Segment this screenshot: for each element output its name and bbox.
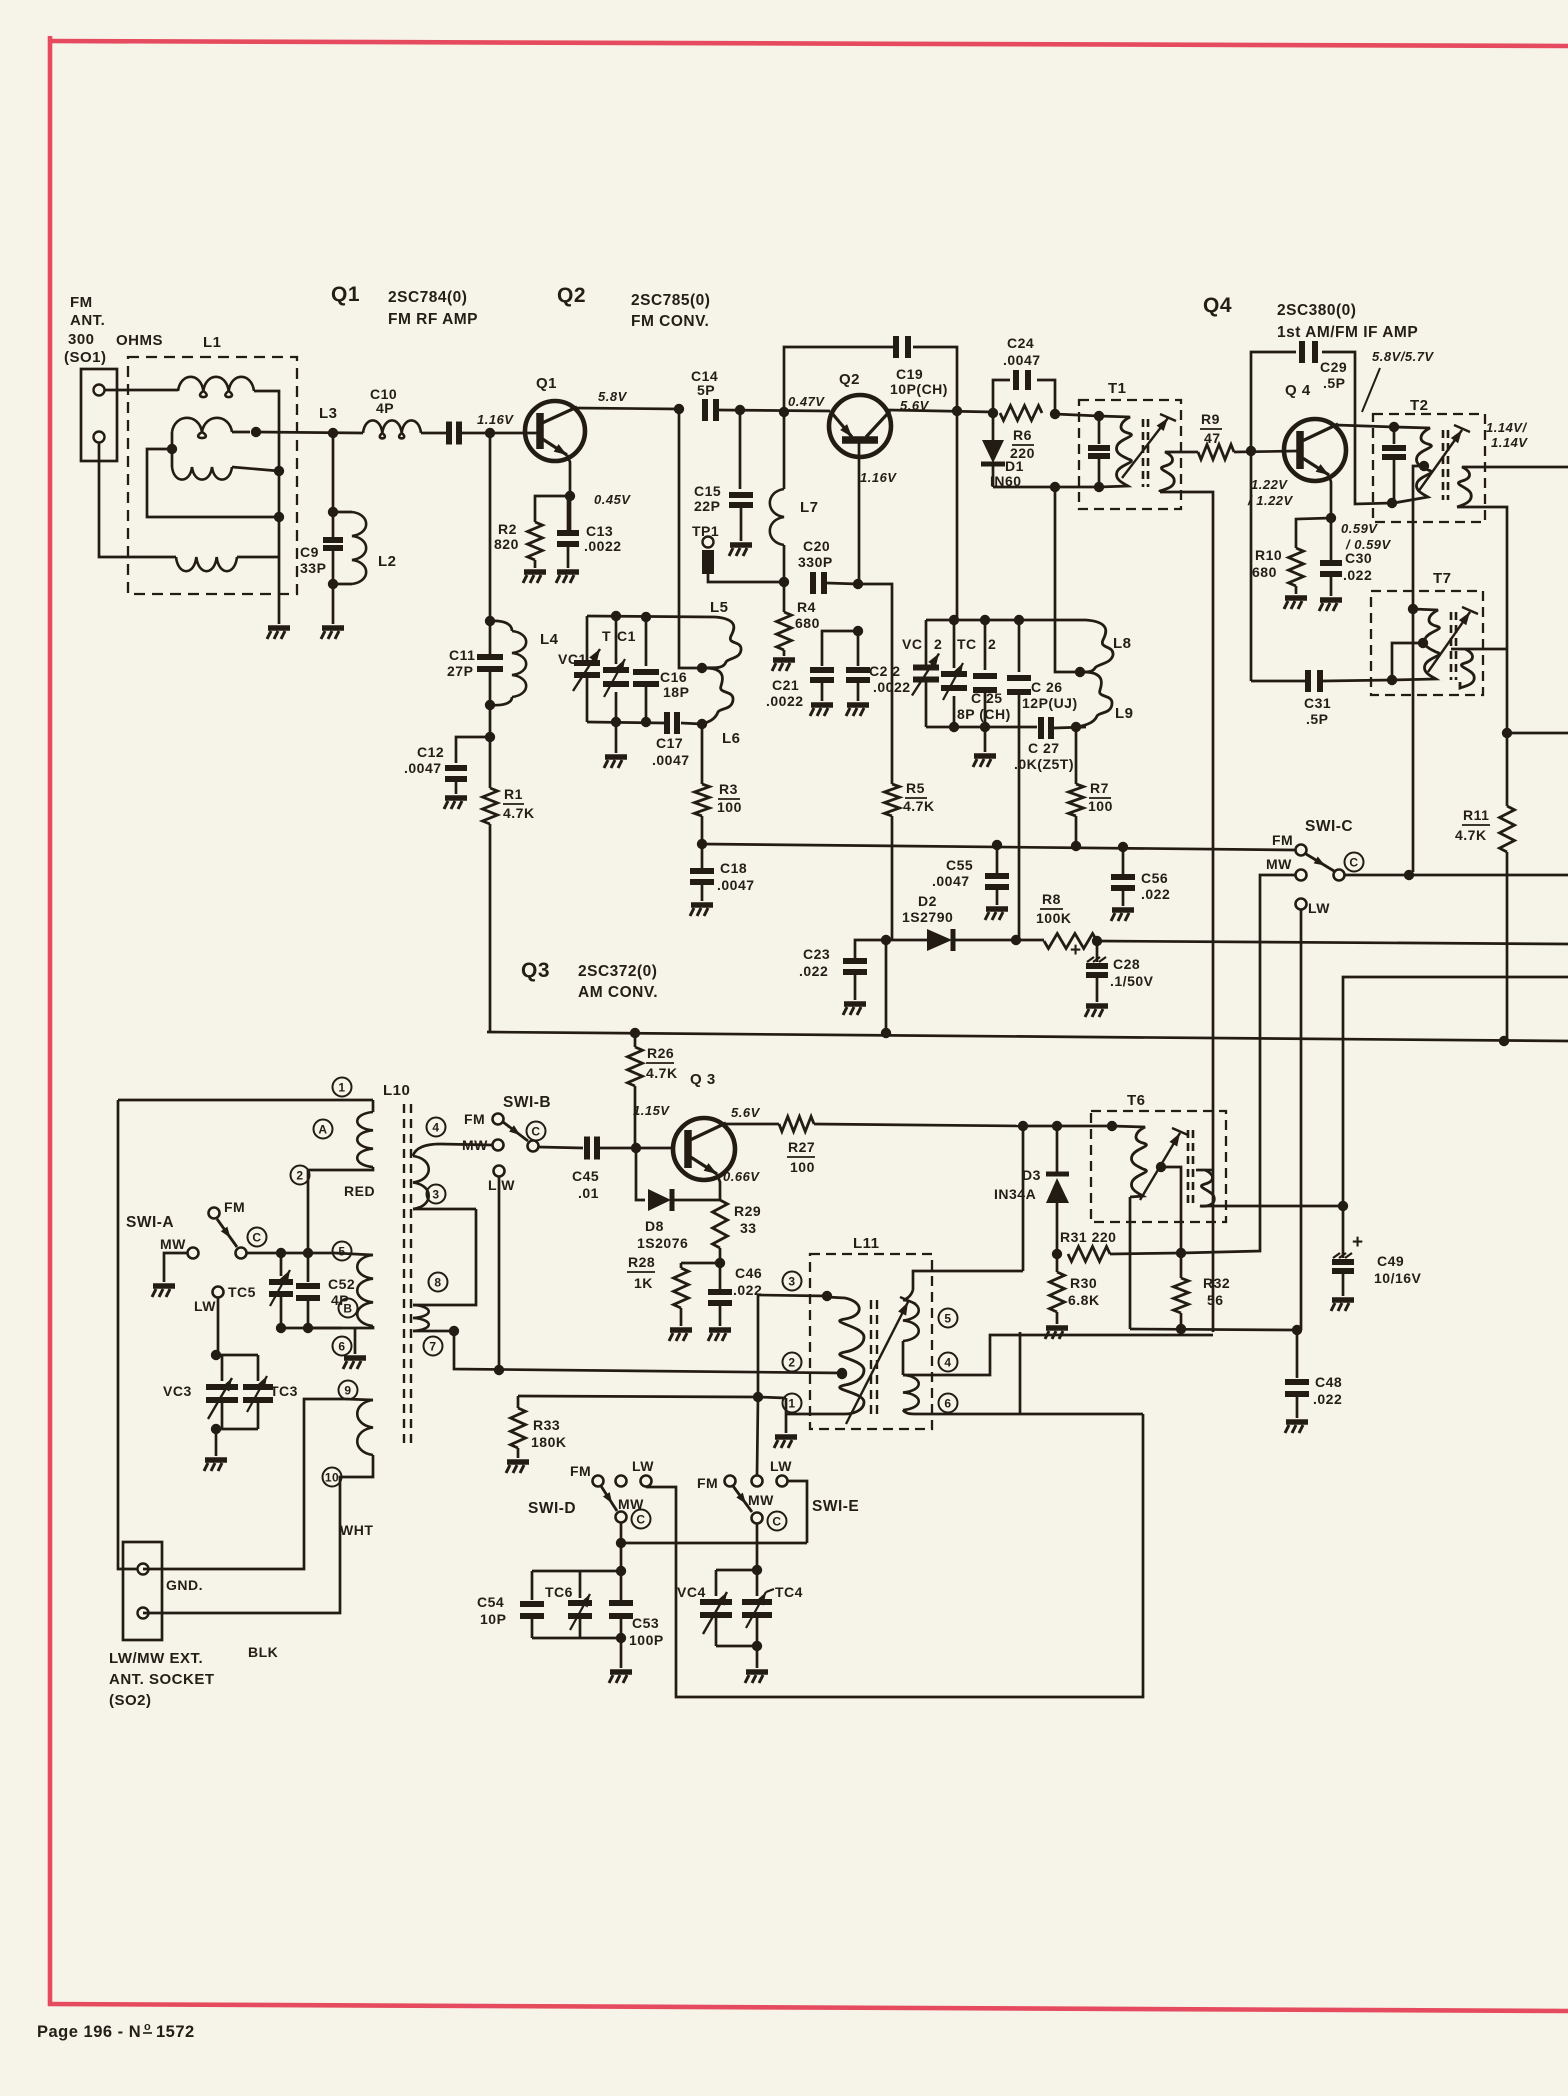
svg-text:T: T (602, 628, 611, 644)
svg-text:Page 196 - N: Page 196 - N (37, 2023, 141, 2041)
svg-text:LW: LW (632, 1458, 654, 1474)
label R9 (1200, 411, 1222, 446)
svg-text:2: 2 (296, 1168, 303, 1182)
svg-text:2: 2 (934, 636, 942, 652)
terminal 6 (333, 1337, 352, 1356)
svg-text:L11: L11 (853, 1235, 880, 1252)
wire R4 top (783, 582, 786, 612)
svg-text:L2: L2 (378, 553, 397, 570)
T2 primary (1394, 427, 1431, 503)
label TC1 (602, 628, 636, 644)
label C52 (328, 1276, 355, 1308)
T2 secondary (1457, 467, 1485, 507)
wire Q3 collector (724, 1123, 779, 1126)
label L8 (1113, 635, 1132, 652)
transistor Q4 (1284, 419, 1346, 481)
svg-text:.0022: .0022 (873, 679, 911, 695)
svg-text:RED: RED (344, 1183, 375, 1199)
terminal L11 3 (783, 1272, 802, 1291)
switch SW1-A arm (217, 1219, 237, 1247)
transistor Q2 (829, 395, 891, 457)
wire D3 T6 feed (1023, 1121, 1112, 1131)
wire emitter node (1296, 518, 1331, 548)
label Q4 ref (1285, 382, 1311, 399)
antenna socket SO1 (81, 369, 117, 461)
wire AGC rail (702, 842, 1295, 852)
label T7 (1433, 570, 1452, 587)
svg-text:4: 4 (944, 1355, 951, 1369)
svg-text:C21: C21 (772, 677, 799, 693)
label C11 (447, 647, 475, 679)
wire D2 node down (881, 940, 891, 1038)
svg-text:R10: R10 (1255, 547, 1282, 563)
label T2 (1410, 397, 1429, 414)
svg-text:FM RF AMP: FM RF AMP (388, 311, 478, 328)
wire tank bottom (587, 717, 664, 727)
switch SW1-E mid (752, 1476, 763, 1487)
wire C31 (1251, 680, 1392, 681)
svg-text:1: 1 (788, 1396, 795, 1410)
svg-text:.0022: .0022 (584, 538, 622, 554)
T2 primary tap (1413, 461, 1429, 872)
wire tank2 top (926, 615, 1086, 625)
ground C53 (609, 1638, 632, 1683)
wire C21 tap (822, 626, 863, 666)
svg-text:8P (CH): 8P (CH) (957, 706, 1011, 722)
label C49 plus (1352, 1232, 1364, 1253)
label TC4 (775, 1584, 803, 1600)
svg-text:R1: R1 (504, 786, 523, 802)
wire T1 top (1055, 411, 1104, 421)
svg-text:L5: L5 (710, 599, 729, 616)
svg-text:0.45V: 0.45V (594, 492, 631, 507)
label Q1 title (331, 283, 478, 328)
svg-text:3: 3 (432, 1187, 439, 1201)
svg-text:FM CONV.: FM CONV. (631, 313, 709, 330)
svg-text:L9: L9 (1115, 705, 1134, 722)
ground C28 (1085, 975, 1108, 1017)
wire to C12 (456, 737, 490, 763)
svg-text:C55: C55 (946, 857, 973, 873)
label R6 (1010, 427, 1035, 461)
ground C9 (321, 628, 344, 639)
label C14 (691, 368, 718, 398)
svg-text:2: 2 (788, 1355, 795, 1369)
svg-text:.022: .022 (1313, 1391, 1342, 1407)
wire C49 up (1343, 977, 1346, 1206)
svg-text:L W: L W (488, 1177, 515, 1193)
wire SWA loop top (118, 1099, 373, 1102)
inductor L7 (770, 412, 784, 582)
terminal L11 1 (783, 1394, 802, 1413)
ground L1 bus (267, 628, 290, 639)
wire L3 to C10 (421, 432, 446, 435)
svg-text:FM: FM (697, 1475, 718, 1491)
coil L5 (702, 617, 741, 668)
wire C14 to C15 (739, 410, 742, 489)
svg-text:TC3: TC3 (270, 1383, 298, 1399)
switch SW1-D arm (601, 1486, 617, 1511)
capacitor C18 (690, 844, 714, 882)
wire term2 down (307, 1170, 310, 1253)
trimmer TC6 (568, 1571, 592, 1638)
svg-text:C 26: C 26 (1031, 679, 1063, 695)
terminal L11 6 (939, 1394, 958, 1413)
svg-text:C20: C20 (803, 538, 830, 554)
wire T6 sec top (1205, 1169, 1213, 1172)
svg-text:C: C (252, 1230, 261, 1244)
transistor Q3 (673, 1118, 735, 1180)
svg-text:R4: R4 (797, 599, 816, 615)
label 1.14V (1486, 420, 1528, 450)
svg-text:680: 680 (1252, 564, 1277, 580)
label VC1 (558, 651, 587, 667)
svg-text:3: 3 (788, 1274, 795, 1288)
label D1 (990, 458, 1024, 489)
page footer text (37, 2021, 195, 2041)
label C30 (1343, 550, 1372, 583)
wire Q2 collector (888, 406, 993, 416)
svg-text:C2 2: C2 2 (869, 663, 901, 679)
label GND (166, 1577, 203, 1593)
transformer T7 box (1371, 591, 1483, 695)
coil L8 (1080, 620, 1113, 672)
wire LW tank (211, 1298, 221, 1360)
ground C48 (1285, 1394, 1308, 1433)
svg-text:LW/MW EXT.: LW/MW EXT. (109, 1650, 203, 1667)
label SW1-D (528, 1500, 576, 1517)
ground C46 (708, 1303, 731, 1341)
wire Q4 base down (1250, 451, 1253, 681)
wire socket to L1 coil (105, 389, 178, 392)
label C15 (694, 483, 721, 514)
svg-text:L6: L6 (722, 730, 741, 747)
wire L1 loop (147, 449, 284, 522)
label C12 (404, 744, 444, 776)
inductor L4 (490, 621, 526, 705)
wire B+ rail (487, 1028, 1568, 1046)
svg-text:.022: .022 (1343, 567, 1372, 583)
svg-text:L1: L1 (203, 334, 222, 351)
resistor R30 (1050, 1254, 1065, 1312)
capacitor C31 (1308, 670, 1320, 692)
label C16 (660, 669, 689, 700)
svg-text:10/16V: 10/16V (1374, 1270, 1422, 1286)
wire D2 to R8 (1016, 939, 1044, 942)
transformer T2 box (1373, 414, 1485, 522)
wire term4 to SWB (440, 1144, 492, 1145)
label D3 (994, 1167, 1041, 1202)
resistor R1 (483, 737, 498, 824)
label C9 (300, 544, 326, 576)
label C19 (890, 366, 948, 397)
resistor R8 (1044, 934, 1097, 949)
switch SW1-E LW (770, 1458, 792, 1487)
svg-text:Q1: Q1 (331, 283, 360, 306)
wire LW long (498, 1177, 501, 1370)
wire socket2 to L1d (99, 443, 176, 557)
capacitor C16 (633, 617, 659, 722)
label R2 (494, 521, 519, 552)
node L5 L6 tap (697, 663, 707, 673)
label 5.8V 5.7V (1362, 349, 1434, 412)
capacitor C56 (1111, 847, 1135, 888)
svg-text:IN34A: IN34A (994, 1186, 1036, 1202)
label VC2 (902, 636, 942, 652)
coil L2 (333, 512, 366, 584)
svg-text:4P: 4P (376, 400, 394, 416)
terminal 1 (333, 1078, 352, 1097)
svg-text:T1: T1 (1108, 380, 1127, 397)
svg-text:C: C (1349, 855, 1358, 869)
svg-text:100P: 100P (629, 1632, 664, 1648)
svg-text:C19: C19 (896, 366, 923, 382)
svg-text:1.16V: 1.16V (860, 470, 897, 485)
svg-text:T6: T6 (1127, 1092, 1146, 1109)
ground C49 (1331, 1271, 1354, 1311)
ground term6 (343, 1328, 366, 1369)
ground R30 (1045, 1312, 1068, 1339)
wire rail to C9 (328, 428, 338, 538)
svg-text:Q4: Q4 (1203, 294, 1232, 317)
svg-text:0.47V: 0.47V (788, 394, 825, 409)
svg-text:10: 10 (325, 1470, 339, 1484)
resistor R32 (1174, 1253, 1189, 1334)
label SW1-B (503, 1094, 551, 1111)
svg-text:C16: C16 (660, 669, 687, 685)
capacitor C53 (609, 1571, 633, 1638)
svg-text:R8: R8 (1042, 891, 1061, 907)
label Q3 title (521, 959, 658, 1001)
ground R33 (506, 1448, 529, 1473)
C29 bypass wire (1251, 352, 1392, 504)
svg-text:100: 100 (717, 799, 742, 815)
node C27 L9 (1054, 722, 1086, 732)
wire Q4 collector (1336, 422, 1399, 432)
svg-text:C29: C29 (1320, 359, 1347, 375)
svg-text:R6: R6 (1013, 427, 1032, 443)
label C45 (572, 1168, 599, 1201)
label R27 (787, 1139, 815, 1175)
svg-text:680: 680 (795, 615, 820, 631)
wire Q1 emitter (565, 455, 575, 530)
wire big loop (646, 1414, 1143, 1697)
T6 slug arrow (1140, 1128, 1188, 1200)
svg-text:L8: L8 (1113, 635, 1132, 652)
label 1.22V (1247, 477, 1294, 508)
L11 core (871, 1300, 877, 1415)
capacitor C28 (1086, 941, 1108, 975)
label R28 (627, 1254, 655, 1291)
resistor R4 (777, 612, 792, 650)
antenna coil L1 box (128, 357, 297, 594)
svg-text:ANT.: ANT. (70, 312, 105, 329)
varcap VC3 (206, 1355, 238, 1429)
wire T2 sec bottom (1457, 507, 1512, 738)
svg-text:C: C (531, 1124, 540, 1138)
svg-text:WHT: WHT (340, 1522, 373, 1538)
svg-text:L7: L7 (800, 499, 819, 516)
capacitor C52 (296, 1253, 320, 1328)
svg-text:C23: C23 (803, 946, 830, 962)
wire bottom rail (1130, 1325, 1302, 1335)
transistor Q1 (525, 401, 585, 461)
label Q3 ref (690, 1071, 716, 1088)
wire VC3 nodes (211, 1355, 258, 1434)
svg-text:C45: C45 (572, 1168, 599, 1184)
ground C55 (985, 887, 1008, 920)
svg-text:.022: .022 (799, 963, 828, 979)
resistor R29 (713, 1200, 728, 1263)
svg-text:C28: C28 (1113, 956, 1140, 972)
wire L11 5 up (1022, 1126, 1025, 1271)
varcap TC4 (742, 1570, 774, 1646)
label C20 (798, 538, 833, 570)
svg-text:SWI-C: SWI-C (1305, 818, 1353, 835)
label C31 (1304, 695, 1331, 727)
wire L11 4 out (903, 1335, 1213, 1375)
resistor R26 (628, 1033, 643, 1148)
diode D8 (636, 1148, 720, 1211)
label 1.16V Q2 (860, 470, 897, 485)
diode D1 (981, 413, 1005, 487)
coil L6 (702, 668, 733, 724)
wire T6 out right (1346, 976, 1568, 979)
wire Q3 emitter (717, 1174, 720, 1200)
wire C14 out (719, 405, 830, 415)
L11 secondary bottom (903, 1375, 919, 1414)
coil L1a (178, 377, 254, 397)
svg-text:10P: 10P (480, 1611, 506, 1627)
L11 tap (837, 1369, 847, 1379)
label D2 (902, 893, 953, 925)
svg-text:ANT. SOCKET: ANT. SOCKET (109, 1671, 215, 1688)
svg-text:2: 2 (988, 636, 996, 652)
label C23 (799, 946, 830, 979)
svg-text:R2: R2 (498, 521, 517, 537)
label Q1 ref (536, 375, 557, 392)
svg-text:R33: R33 (533, 1417, 560, 1433)
label SW1-E (812, 1498, 859, 1515)
switch SW1-D LW (632, 1458, 654, 1487)
wire emitter to R2 (535, 496, 570, 522)
label T1 (1108, 380, 1127, 397)
switch SW1-C MW (1266, 856, 1307, 881)
svg-text:C: C (636, 1512, 645, 1526)
resistor R11 (1500, 733, 1515, 852)
svg-text:D3: D3 (1022, 1167, 1041, 1183)
terminal 5 (333, 1242, 352, 1261)
svg-text:C46: C46 (735, 1265, 762, 1281)
wire C52 bottom (276, 1323, 342, 1333)
svg-text:MW: MW (748, 1492, 774, 1508)
wire L1 left join (167, 432, 177, 467)
svg-text:5.8V: 5.8V (598, 389, 628, 404)
label C28 (1110, 956, 1154, 989)
wire C45 to Q3 (600, 1143, 671, 1153)
varcap TC3 (243, 1355, 273, 1429)
svg-text:R26: R26 (647, 1045, 674, 1061)
wire R5 to D2 (881, 816, 892, 945)
wire Q4 emitter (1326, 475, 1336, 523)
switch SW1-B LW (488, 1166, 515, 1194)
wire term7 out (454, 1331, 842, 1375)
label 0.45V (594, 492, 631, 507)
wire T1 sec bottom (1160, 492, 1213, 1332)
L10 primary B (308, 1253, 373, 1328)
resistor R33 (511, 1396, 759, 1448)
wire R9 to Q4 (1234, 446, 1297, 456)
svg-text:VC4: VC4 (677, 1584, 706, 1600)
svg-text:56: 56 (1207, 1292, 1224, 1308)
capacitor C13 (557, 533, 579, 544)
svg-text:C 27: C 27 (1028, 740, 1060, 756)
svg-text:4: 4 (432, 1120, 439, 1134)
wire D1 bottom (993, 482, 1104, 492)
svg-text:C52: C52 (328, 1276, 355, 1292)
node L4 bottom (485, 700, 495, 742)
resistor R9 (1198, 445, 1234, 460)
label R5 (903, 780, 935, 814)
svg-text:C48: C48 (1315, 1374, 1342, 1390)
wire to R5 feed (858, 584, 892, 784)
wire R7 to rail (1071, 816, 1081, 851)
wire T2 sec top out (1485, 466, 1568, 469)
resistor R27 (779, 1117, 814, 1132)
svg-text:27P: 27P (447, 663, 473, 679)
svg-text:.0047: .0047 (932, 873, 970, 889)
label SW1-C (1305, 818, 1353, 835)
svg-text:A: A (318, 1122, 327, 1136)
svg-text:5P: 5P (697, 382, 715, 398)
svg-text:9: 9 (344, 1383, 351, 1397)
ground TC1 (604, 722, 627, 768)
svg-text:1.15V: 1.15V (633, 1103, 670, 1118)
wire T1 sec to R9 (1181, 451, 1198, 454)
switch SW1-B MW (462, 1137, 504, 1153)
wire T1 to tap (1055, 487, 1080, 672)
svg-text:D2: D2 (918, 893, 937, 909)
T1 cap (1088, 416, 1110, 487)
svg-text:+: + (1352, 1232, 1364, 1253)
wire SW1-E MW up (757, 1397, 758, 1475)
switch SW1-D common (616, 1510, 651, 1529)
svg-text:1: 1 (338, 1080, 345, 1094)
svg-text:LW: LW (770, 1458, 792, 1474)
ground C30 (1319, 574, 1342, 611)
svg-text:TC4: TC4 (775, 1584, 803, 1600)
capacitor C22 (846, 631, 870, 680)
capacitor C19 (896, 336, 908, 358)
label L5 (710, 599, 729, 616)
wire L1 to L3 (256, 432, 363, 433)
wire R2 gnd (534, 560, 537, 568)
svg-text:TC6: TC6 (545, 1584, 573, 1600)
svg-text:100K: 100K (1036, 910, 1071, 926)
svg-text:33P: 33P (300, 560, 326, 576)
svg-text:FM: FM (224, 1199, 245, 1215)
svg-text:R3: R3 (719, 781, 738, 797)
svg-text:C30: C30 (1345, 550, 1372, 566)
svg-text:C53: C53 (632, 1615, 659, 1631)
svg-text:2SC785(0): 2SC785(0) (631, 292, 710, 309)
svg-text:7: 7 (429, 1339, 436, 1353)
svg-text:33: 33 (740, 1220, 757, 1236)
svg-text:0.59V: 0.59V (1341, 521, 1378, 536)
label C54 (477, 1594, 506, 1627)
svg-text:100: 100 (1088, 798, 1113, 814)
varcap TC1 (603, 616, 629, 722)
